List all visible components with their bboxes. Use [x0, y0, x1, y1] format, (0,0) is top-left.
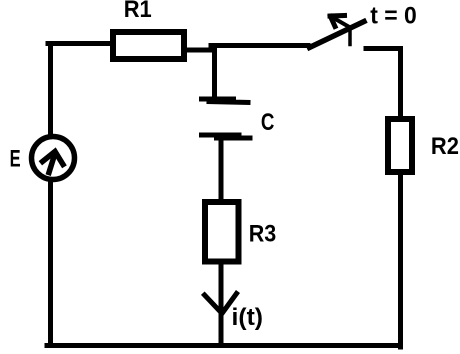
- wire top-left horizontal: [48, 41, 112, 46]
- svg-text:t = 0: t = 0: [370, 3, 417, 30]
- wire capacitor to R3: [219, 138, 224, 202]
- wire left vertical lower: [48, 182, 53, 345]
- switch arrow tail: [348, 30, 352, 45]
- wire R1 to switch: [186, 46, 308, 51]
- source E arrow: [49, 155, 55, 173]
- svg-text:i(t): i(t): [232, 304, 264, 331]
- capacitor C top plate: [199, 99, 251, 103]
- svg-text:E: E: [10, 146, 21, 173]
- wire left vertical upper: [48, 44, 53, 136]
- wire bottom: [47, 343, 400, 348]
- switch arrow shaft: [331, 17, 348, 27]
- svg-text:C: C: [261, 109, 275, 136]
- source E circle: [32, 137, 75, 180]
- wire right vertical upper: [398, 49, 403, 119]
- resistor R1: [113, 32, 184, 59]
- wire right vertical lower: [398, 175, 403, 347]
- svg-text:R2: R2: [431, 133, 459, 160]
- node junction to capacitor: [212, 46, 217, 98]
- wire R3 to bottom: [219, 264, 224, 345]
- svg-text:R1: R1: [124, 0, 152, 23]
- switch arrowhead: [330, 16, 345, 27]
- switch blade: [310, 22, 365, 48]
- svg-text:R3: R3: [249, 221, 277, 248]
- resistor R3: [205, 202, 239, 262]
- capacitor C bottom plate: [199, 135, 253, 138]
- resistor R2: [388, 119, 412, 172]
- arrow i(t): [205, 294, 237, 314]
- switch right stub: [366, 46, 400, 51]
